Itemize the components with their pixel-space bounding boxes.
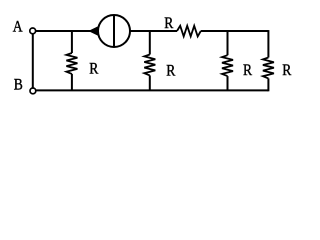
- svg-text:R: R: [243, 62, 252, 79]
- wire R4 bottom lead: [267, 78, 269, 91]
- wire top rail left segment: [36, 30, 98, 32]
- resistor R top (horizontal): [177, 26, 201, 37]
- svg-text:R: R: [166, 62, 175, 79]
- resistor R2 (vertical): [144, 55, 155, 76]
- wire R2 bottom lead: [149, 75, 151, 90]
- resistor R4 (vertical): [263, 58, 274, 79]
- current source I1 arrow: [88, 26, 98, 35]
- svg-text:R: R: [164, 15, 173, 32]
- wire left vertical A-B: [32, 34, 34, 87]
- wire top rail right segment: [201, 30, 269, 32]
- resistor R1 (vertical): [66, 53, 77, 74]
- wire bottom rail: [36, 89, 268, 91]
- wire R2 top lead: [149, 31, 151, 55]
- resistor R3 (vertical): [222, 55, 233, 76]
- svg-text:B: B: [14, 76, 23, 93]
- node B: [14, 76, 36, 93]
- wire top rail middle segment: [130, 30, 177, 32]
- current source I1 circle: [98, 15, 130, 47]
- svg-text:A: A: [13, 18, 23, 35]
- wire R1 top lead: [71, 31, 73, 53]
- current source I1 bar: [113, 15, 115, 46]
- wire R3 bottom lead: [227, 76, 229, 90]
- wire R4 top lead: [267, 30, 269, 57]
- wire R3 top lead: [227, 31, 229, 55]
- svg-text:R: R: [282, 62, 291, 79]
- node A: [13, 18, 36, 35]
- svg-text:R: R: [89, 60, 98, 77]
- wire R1 bottom lead: [71, 74, 73, 91]
